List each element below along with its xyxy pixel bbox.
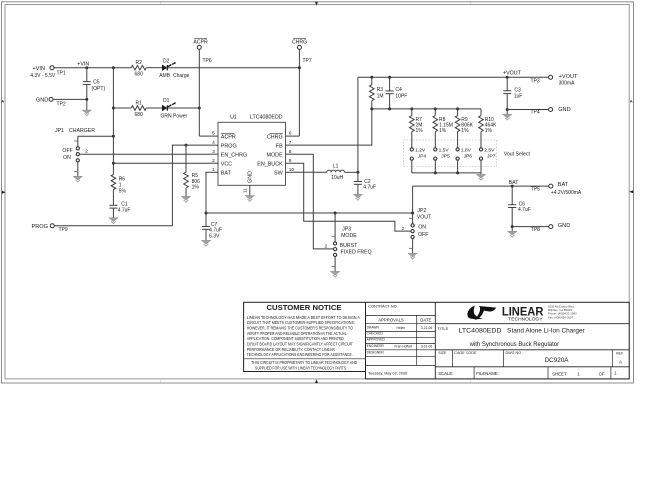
svg-text:Fran Hoffart: Fran Hoffart — [395, 344, 413, 348]
svg-text:TP3: TP3 — [531, 78, 540, 84]
svg-text:680: 680 — [135, 72, 144, 78]
svg-text:4.7uF: 4.7uF — [118, 207, 131, 213]
svg-text:1%: 1% — [416, 128, 424, 134]
svg-text:JP7: JP7 — [487, 154, 496, 160]
svg-text:FIXED FREQ: FIXED FREQ — [341, 250, 372, 256]
svg-text:TP5: TP5 — [531, 187, 540, 193]
svg-text:FB: FB — [276, 143, 283, 149]
svg-text:CHARGER: CHARGER — [69, 128, 95, 134]
svg-text:LTC4080EDD: LTC4080EDD — [250, 115, 283, 121]
svg-text:DC920A: DC920A — [545, 357, 570, 364]
svg-text:CAGE CODE: CAGE CODE — [454, 351, 477, 355]
svg-text:3-21-06: 3-21-06 — [421, 326, 433, 330]
svg-text:9: 9 — [289, 158, 292, 164]
svg-text:APPROVED: APPROVED — [367, 338, 386, 342]
svg-text:TP2: TP2 — [57, 102, 66, 108]
svg-text:SUPPLIED FOR USE WITH LINEAR T: SUPPLIED FOR USE WITH LINEAR TECHNOLOGY … — [255, 366, 347, 371]
svg-text:TP6: TP6 — [203, 58, 212, 64]
svg-text:+VIN: +VIN — [32, 66, 45, 72]
svg-text:6.3V: 6.3V — [209, 233, 220, 239]
svg-text:1: 1 — [160, 380, 162, 384]
svg-text:ACPR: ACPR — [221, 134, 236, 140]
svg-text:VCC: VCC — [221, 161, 232, 167]
svg-text:VERIFY PROPER AND RELIABLE OPE: VERIFY PROPER AND RELIABLE OPERATION IN … — [247, 331, 348, 336]
svg-text:TECHNOLOGY APPLICATIONS ENGINE: TECHNOLOGY APPLICATIONS ENGINEERING FOR … — [247, 352, 353, 357]
svg-text:10uH: 10uH — [331, 175, 343, 181]
svg-text:DRAWN: DRAWN — [367, 325, 380, 329]
svg-text:C4: C4 — [395, 87, 402, 93]
svg-text:1.5V: 1.5V — [439, 147, 450, 153]
svg-text:1%: 1% — [439, 128, 447, 134]
svg-text:APPROVALS: APPROVALS — [378, 317, 404, 322]
svg-text:4.7uF: 4.7uF — [518, 207, 531, 213]
svg-text:MODE: MODE — [267, 152, 284, 158]
svg-text:Helen: Helen — [397, 326, 406, 330]
svg-text:TP9: TP9 — [59, 227, 68, 233]
svg-text:R2: R2 — [135, 60, 142, 66]
svg-text:SW: SW — [274, 171, 284, 177]
svg-text:DATE: DATE — [420, 317, 431, 322]
svg-text:HOWEVER, IT REMAINS THE CUSTOM: HOWEVER, IT REMAINS THE CUSTOMER'S RESPO… — [247, 326, 354, 331]
svg-text:EN_CHRG: EN_CHRG — [221, 152, 247, 158]
svg-text:OFF: OFF — [418, 232, 428, 238]
svg-text:Fax: (408)434-0507: Fax: (408)434-0507 — [548, 315, 574, 319]
svg-text:VOUT: VOUT — [417, 215, 432, 221]
svg-text:(OPT): (OPT) — [92, 86, 106, 92]
svg-text:ACPR: ACPR — [193, 39, 208, 45]
svg-text:Charge: Charge — [173, 73, 190, 79]
svg-text:1: 1 — [212, 167, 215, 173]
svg-text:SCALE:: SCALE: — [438, 371, 453, 376]
svg-text:1%: 1% — [485, 128, 493, 134]
svg-text:3: 3 — [212, 149, 215, 155]
svg-text:EN_BUCK: EN_BUCK — [257, 161, 283, 167]
svg-text:1: 1 — [470, 1, 472, 5]
svg-text:BAT: BAT — [509, 180, 520, 186]
svg-text:1.2V: 1.2V — [415, 147, 426, 153]
svg-text:ENGINEER: ENGINEER — [367, 344, 385, 348]
svg-text:DESIGNER: DESIGNER — [367, 350, 385, 354]
svg-text:BAT: BAT — [221, 171, 232, 177]
svg-text:GRN Power: GRN Power — [161, 113, 188, 119]
svg-text:CHECKED: CHECKED — [367, 332, 384, 336]
svg-text:2: 2 — [402, 226, 405, 232]
svg-text:+4.2V/500mA: +4.2V/500mA — [551, 190, 582, 196]
svg-text:THIS CIRCUIT IS PROPRIETARY TO: THIS CIRCUIT IS PROPRIETARY TO LINEAR TE… — [251, 360, 357, 365]
svg-text:PROG: PROG — [32, 224, 48, 230]
svg-text:8: 8 — [289, 149, 292, 155]
svg-text:1: 1 — [470, 380, 472, 384]
svg-text:+VOUT: +VOUT — [559, 74, 578, 80]
svg-text:5%: 5% — [119, 188, 127, 194]
svg-text:PROG: PROG — [221, 143, 237, 149]
svg-text:JP2: JP2 — [417, 208, 426, 214]
svg-text:JP4: JP4 — [418, 154, 427, 160]
svg-text:D1: D1 — [163, 98, 170, 104]
svg-text:A: A — [630, 99, 633, 104]
svg-text:TP8: TP8 — [531, 227, 540, 233]
svg-text:1uF: 1uF — [514, 94, 523, 100]
svg-text:BURST: BURST — [340, 243, 358, 249]
svg-text:TP4: TP4 — [531, 110, 540, 116]
svg-text:2: 2 — [85, 149, 88, 155]
svg-text:7: 7 — [289, 140, 292, 146]
svg-text:D2: D2 — [163, 59, 170, 65]
svg-text:1.8V: 1.8V — [461, 147, 472, 153]
svg-text:2: 2 — [325, 243, 328, 249]
svg-text:680: 680 — [135, 112, 144, 118]
svg-text:JP5: JP5 — [441, 154, 450, 160]
svg-text:4.7uF: 4.7uF — [363, 185, 376, 191]
svg-text:1%: 1% — [461, 128, 469, 134]
svg-text:CIRCUIT THAT MEETS CUSTOMER-SU: CIRCUIT THAT MEETS CUSTOMER-SUPPLIED SPE… — [247, 320, 355, 325]
svg-text:Vout Select: Vout Select — [504, 152, 531, 158]
svg-text:3-21-06: 3-21-06 — [421, 344, 433, 348]
svg-text:300mA: 300mA — [559, 80, 576, 86]
svg-text:U1: U1 — [230, 115, 237, 121]
svg-text:JP3: JP3 — [342, 227, 351, 233]
svg-text:OF: OF — [599, 371, 605, 376]
svg-text:OFF: OFF — [62, 148, 72, 154]
svg-text:PERFORMANCE OR RELIABILITY. C: PERFORMANCE OR RELIABILITY. CONTACT LINE… — [247, 347, 335, 352]
svg-text:LINEAR TECHNOLOGY HAS MADE A B: LINEAR TECHNOLOGY HAS MADE A BEST EFFORT… — [247, 315, 360, 320]
svg-text:BAT: BAT — [558, 182, 569, 188]
svg-text:SHEET: SHEET — [552, 371, 567, 376]
svg-text:JP1: JP1 — [55, 128, 64, 134]
svg-text:MODE: MODE — [341, 233, 357, 239]
svg-text:11: 11 — [242, 188, 248, 193]
svg-text:GND: GND — [558, 107, 570, 113]
svg-text:SIZE: SIZE — [438, 351, 447, 355]
svg-text:L1: L1 — [333, 164, 339, 170]
svg-text:6: 6 — [289, 131, 292, 137]
svg-text:TP7: TP7 — [303, 58, 312, 64]
svg-text:CONTRACT NO.: CONTRACT NO. — [368, 304, 398, 309]
svg-text:TP1: TP1 — [57, 70, 66, 76]
svg-text:10PF: 10PF — [395, 93, 407, 99]
svg-text:A: A — [1, 99, 4, 104]
svg-text:C5: C5 — [93, 80, 100, 86]
svg-text:2.5V: 2.5V — [484, 147, 495, 153]
svg-text:GND: GND — [36, 97, 48, 103]
svg-text:GND: GND — [558, 223, 570, 229]
svg-text:REV: REV — [616, 351, 624, 355]
svg-text:+VOUT: +VOUT — [503, 71, 522, 77]
svg-text:CUSTOMER NOTICE: CUSTOMER NOTICE — [267, 303, 342, 312]
svg-text:APPLICATION. COMPONENT SUBSTIT: APPLICATION. COMPONENT SUBSTITUTION AND … — [247, 336, 344, 341]
svg-text:AMB: AMB — [159, 73, 171, 79]
svg-text:4.3V - 5.5V: 4.3V - 5.5V — [30, 73, 56, 79]
svg-text:R1: R1 — [135, 100, 142, 106]
svg-text:with Synchronous Buck Regulato: with Synchronous Buck Regulator — [469, 341, 559, 348]
svg-text:Stand Alone Li-Ion Charger: Stand Alone Li-Ion Charger — [507, 328, 585, 335]
svg-text:CHRG: CHRG — [292, 39, 307, 45]
svg-text:ON: ON — [418, 225, 426, 231]
svg-text:1M: 1M — [377, 93, 384, 99]
svg-text:1: 1 — [160, 1, 162, 5]
svg-text:FILENAME:: FILENAME: — [476, 371, 499, 376]
svg-text:CIRUIT BOARD LAYOUT MAY SIGNIF: CIRUIT BOARD LAYOUT MAY SIGNIFICANTLY AF… — [247, 342, 353, 347]
svg-text:1%: 1% — [192, 184, 200, 190]
svg-text:4: 4 — [212, 140, 215, 146]
svg-text:TITLE: TITLE — [438, 326, 449, 331]
svg-text:ON: ON — [63, 155, 71, 161]
svg-text:JP6: JP6 — [464, 154, 473, 160]
svg-text:TECHNOLOGY: TECHNOLOGY — [508, 316, 542, 321]
svg-text:GND: GND — [248, 171, 254, 183]
svg-text:CHRG: CHRG — [267, 134, 283, 140]
svg-text:R3: R3 — [377, 87, 384, 93]
svg-text:LTC4080EDD: LTC4080EDD — [459, 328, 503, 335]
svg-text:5: 5 — [212, 131, 215, 137]
svg-text:Tuesday, May 02, 2006: Tuesday, May 02, 2006 — [368, 371, 407, 375]
svg-text:DWG NO: DWG NO — [506, 351, 522, 355]
svg-text:2: 2 — [212, 158, 215, 164]
